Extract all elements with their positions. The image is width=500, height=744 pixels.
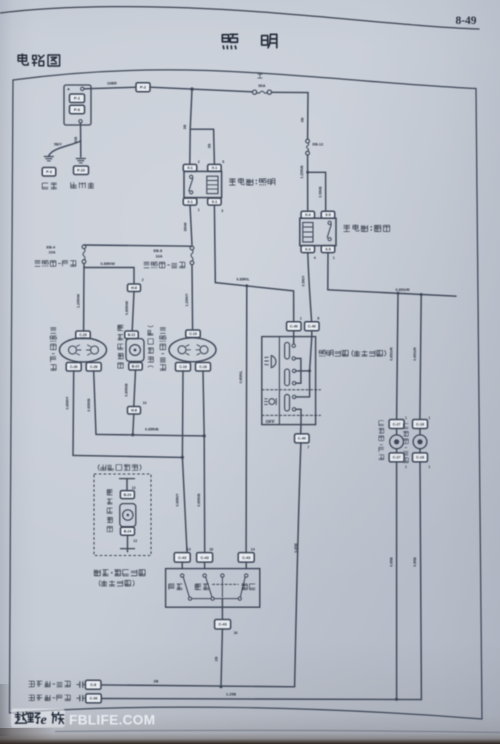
label 车宽灯-右侧 vertical: [403, 424, 408, 463]
wire dimmer ground: [221, 629, 222, 687]
connector P-2: [136, 83, 150, 92]
wire right low beam: [182, 371, 187, 552]
svg-text:8: 8: [317, 317, 319, 321]
label OFF: [266, 419, 275, 424]
width lamp right 车宽灯-右侧: [413, 416, 431, 469]
wire chassis branch: [49, 141, 81, 156]
contact mid: [221, 574, 224, 597]
svg-text:C-18: C-18: [199, 365, 207, 369]
ground chassis: [44, 157, 53, 161]
svg-text:0.85G/R: 0.85G/R: [396, 288, 410, 292]
connector P-1: [70, 94, 85, 103]
wire width-right column: [420, 295, 421, 420]
svg-text:0.85R/B: 0.85R/B: [197, 493, 201, 507]
label 0.85R/L passing: [239, 370, 243, 384]
label 30B: [74, 136, 78, 143]
svg-text:0.85R/L: 0.85R/L: [239, 370, 243, 384]
switch contacts: [292, 344, 296, 411]
svg-text:13: 13: [132, 486, 136, 490]
svg-text:C-18: C-18: [416, 456, 424, 460]
svg-text:C-43: C-43: [242, 556, 250, 560]
svg-text:14: 14: [251, 547, 255, 551]
label 0.85B wleft: [389, 557, 393, 567]
svg-text:C-16: C-16: [179, 365, 187, 369]
mechanical link dashed: [213, 583, 239, 585]
svg-text:C-40: C-40: [298, 437, 306, 441]
contact high 远光: [203, 574, 212, 597]
wire left high beam: [94, 371, 96, 434]
page number 8-49: [455, 15, 476, 27]
wire branch to indicator: [84, 268, 134, 285]
label 组合开关: [99, 580, 134, 586]
label 3B left: [183, 124, 187, 129]
svg-text:P-10: P-10: [77, 169, 85, 173]
relay U2 tail-lamp 继电器：尾灯: [300, 211, 336, 259]
switch S2 dimmer-passing box: [166, 569, 260, 608]
watermark FBLIFE.COM: [69, 712, 155, 727]
svg-text:13: 13: [143, 401, 147, 405]
svg-text:X-5: X-5: [325, 213, 331, 217]
wire relay1 coil to switch: [214, 205, 293, 321]
head lamp left 前照灯-左侧: [60, 331, 107, 371]
svg-text:0.85R/Y: 0.85R/Y: [176, 493, 180, 507]
wire c6 to ground pin: [296, 409, 301, 433]
svg-text:13: 13: [187, 547, 191, 551]
svg-text:0.85R/B: 0.85R/B: [87, 398, 91, 412]
svg-text:1.25R/B: 1.25R/B: [300, 165, 304, 179]
svg-text:P-3: P-3: [46, 170, 52, 174]
wire tail feed down: [307, 93, 309, 140]
page title 照明: [222, 34, 276, 48]
svg-text:0.85R/W: 0.85R/W: [125, 300, 129, 315]
label 超车: [242, 584, 256, 590]
label 2B dimmer: [215, 656, 219, 661]
label 远光: [195, 584, 209, 590]
svg-text:3R/W: 3R/W: [183, 222, 187, 232]
svg-text:1: 1: [428, 465, 430, 469]
svg-text:B-24: B-24: [124, 493, 132, 497]
svg-text:EB-4: EB-4: [47, 245, 57, 249]
svg-text:P-2: P-2: [140, 85, 147, 90]
svg-text:C-18: C-18: [416, 422, 424, 426]
switch S1 lighting box: [262, 337, 316, 425]
bus high beam: [96, 434, 204, 436]
connector C-36: [86, 694, 102, 703]
label EB-8 16A: [154, 249, 163, 258]
watermark 越野e族: [11, 709, 65, 728]
svg-text:C-40: C-40: [308, 325, 316, 329]
svg-text:B-22: B-22: [132, 365, 140, 369]
label 0.85G/R right: [413, 347, 417, 361]
svg-text:C-28: C-28: [90, 365, 98, 369]
label 1.25B bus: [226, 692, 236, 696]
svg-text:0.85G/R: 0.85G/R: [390, 347, 394, 361]
label 0.5R/B: [319, 186, 323, 198]
svg-text:90A: 90A: [258, 83, 265, 88]
label 0.85R/B bus: [145, 428, 159, 432]
svg-text:0.85R/Y: 0.85R/Y: [66, 396, 70, 410]
label 0.85R/Y right: [176, 493, 180, 507]
label 0.85R/Y left: [66, 396, 70, 410]
svg-text:B-22: B-22: [128, 333, 136, 337]
label 叶子板-右侧: [29, 681, 71, 687]
svg-text:H-8: H-8: [131, 286, 137, 290]
svg-text:3: 3: [221, 209, 223, 213]
page edge shadow line: [55, 730, 500, 732]
svg-text:C-43: C-43: [218, 623, 226, 627]
wire width-right ground: [420, 462, 421, 700]
label 不带转速表: [98, 464, 141, 470]
connector C-43 pin14: [238, 547, 255, 562]
wire stubs C-43: [182, 562, 246, 568]
wire right high beam: [203, 371, 205, 552]
label 2B bus: [154, 679, 159, 683]
label 近光: [169, 584, 183, 590]
lamp H1 high-beam indicator: [126, 339, 144, 362]
svg-text:1: 1: [333, 256, 335, 260]
svg-text:0.85R/B: 0.85R/B: [125, 383, 129, 397]
svg-text:2: 2: [198, 160, 200, 164]
svg-text:C-19: C-19: [189, 332, 197, 336]
dashed option box: [94, 474, 151, 556]
label 0.85B wright: [413, 557, 417, 567]
svg-text:X-1: X-1: [187, 200, 193, 204]
svg-text:5B/Y: 5B/Y: [54, 143, 62, 147]
connector H-8 lower: [128, 401, 147, 414]
svg-text:X-5: X-5: [325, 247, 331, 251]
junction tail coil/switch: [306, 171, 309, 174]
junction indicator high bus: [131, 433, 134, 436]
wire B-22 down: [134, 370, 136, 406]
junction high bus right: [203, 434, 206, 437]
indicator B-24 no-tach: [120, 479, 138, 552]
connector symbol left fender: [77, 695, 86, 701]
connector P-6: [70, 105, 85, 114]
svg-text:3B: 3B: [301, 117, 305, 122]
svg-text:16A: 16A: [156, 254, 163, 258]
icon headlamp: [265, 356, 276, 368]
svg-text:FBLIFE.COM: FBLIFE.COM: [69, 712, 155, 727]
svg-text:C-27: C-27: [393, 422, 401, 426]
label relay tail 继电器：尾灯: [344, 225, 390, 232]
wire pin8 into switch: [296, 331, 312, 397]
label 1.25R/Y: [185, 293, 189, 307]
svg-text:1.25R/W: 1.25R/W: [77, 293, 81, 308]
label 前照灯-右侧 vertical: [160, 328, 166, 371]
svg-text:H-8: H-8: [131, 409, 137, 413]
wire H-8 to B-22: [132, 292, 134, 331]
link c2-c4: [295, 358, 301, 383]
label 0.85G/R left: [390, 347, 394, 361]
svg-text:0.85B: 0.85B: [413, 557, 417, 567]
svg-text:X-1: X-1: [187, 166, 193, 170]
fuse EB-12: [306, 139, 310, 155]
relay U1 head-lamp 继电器：照明: [183, 160, 224, 213]
svg-text:18: 18: [209, 547, 213, 551]
label 0.85R/B left: [87, 398, 91, 412]
label 16BR: [107, 81, 117, 85]
connector C-43 output: [215, 620, 238, 635]
junction passing branch: [245, 284, 248, 287]
svg-text:5: 5: [222, 160, 224, 164]
svg-text:X-4: X-4: [305, 213, 311, 217]
label 0.85R/B ind: [125, 383, 129, 397]
contact low 近光: [181, 574, 190, 597]
svg-text:C-40: C-40: [290, 325, 298, 329]
svg-text:EB-12: EB-12: [313, 142, 324, 146]
wire width-left column: [397, 293, 398, 419]
svg-text:0.85B: 0.85B: [294, 543, 298, 553]
width lamp left 车宽灯-左侧: [389, 416, 407, 469]
connector C-40 pin8: [305, 317, 320, 331]
svg-text:X-1: X-1: [212, 166, 218, 170]
connector P-3: [42, 168, 56, 177]
label EB-12: [313, 142, 324, 146]
connector B-22 upper: [125, 331, 139, 339]
svg-text:1: 1: [405, 416, 407, 420]
svg-text:C-43: C-43: [178, 556, 186, 560]
wire left low beam: [72, 371, 75, 455]
switch common rail: [188, 597, 241, 619]
wire EB-8 to right headlamp: [191, 265, 194, 330]
label 1.25R/W: [77, 293, 81, 308]
svg-text:2: 2: [142, 278, 144, 282]
junction lighting feed: [190, 87, 193, 90]
label 车架: [42, 183, 57, 189]
connector C-40 ground: [295, 434, 310, 450]
label 3R/W: [183, 222, 187, 232]
label 5B/Y: [54, 143, 62, 147]
fuse EB-4: [82, 245, 86, 264]
label main fuse: [257, 73, 265, 88]
label 3B right: [207, 143, 211, 148]
wire passing to C-43 pin14: [245, 286, 248, 552]
svg-text:0.85R/B: 0.85R/B: [145, 428, 159, 432]
svg-text:P-1: P-1: [74, 96, 81, 101]
junction pin8 link: [308, 369, 311, 372]
page header rule: [0, 7, 479, 29]
svg-text:0.85R/W: 0.85R/W: [101, 262, 116, 266]
wire tail coil to C-40 pin8: [308, 253, 312, 322]
head lamp right 前照灯-右侧: [169, 330, 216, 371]
connector C-8: [85, 680, 101, 689]
label 前照灯-左侧 fuse: [35, 261, 76, 267]
label 叶子板-左侧: [29, 695, 71, 701]
wire main fuse to tail branch: [272, 91, 309, 93]
connector B-22 lower: [129, 363, 143, 371]
svg-text:P-6: P-6: [74, 107, 81, 112]
connector P-10: [74, 166, 89, 175]
svg-text:X-1: X-1: [212, 200, 218, 204]
label 前照灯-右侧 fuse: [144, 262, 185, 268]
label 带转速表 vertical: [148, 326, 154, 367]
svg-text:C-43: C-43: [200, 556, 208, 560]
junction low bus: [181, 456, 184, 459]
svg-text:2B: 2B: [215, 656, 219, 661]
label EB-4 10A: [47, 245, 57, 254]
label 0.5R/Y: [301, 275, 305, 287]
connector symbol right fender: [77, 682, 86, 688]
svg-text:X-4: X-4: [305, 247, 311, 251]
wire branch 0.5R/B: [308, 172, 326, 211]
svg-text:16BR: 16BR: [107, 81, 117, 85]
contact slots: [285, 342, 290, 411]
junction width-left on bus B: [395, 698, 398, 701]
svg-text:1.25R/Y: 1.25R/Y: [185, 293, 189, 307]
svg-text:0.85B: 0.85B: [389, 557, 393, 567]
svg-text:3B: 3B: [207, 143, 211, 148]
svg-text:0.5R/Y: 0.5R/Y: [301, 275, 305, 287]
junction width-right: [420, 293, 423, 296]
connector C-43 pin18: [197, 547, 214, 562]
svg-text:0.5R/B: 0.5R/B: [319, 186, 323, 198]
svg-text:OFF: OFF: [266, 419, 275, 424]
fuse main 90A: [253, 90, 272, 94]
wire width-left ground: [396, 462, 398, 699]
label 车宽灯-左侧 vertical: [379, 421, 384, 460]
svg-text:1: 1: [198, 208, 200, 212]
connector C-43 pin13: [174, 547, 191, 562]
label 0.85R/W branch: [101, 262, 116, 266]
svg-text:3B: 3B: [183, 124, 187, 129]
label 照明开关组合开关: [319, 350, 386, 356]
label 变光超车开关: [94, 570, 145, 576]
junction dimmer on bus A: [219, 685, 222, 688]
fuse EB-8: [190, 246, 194, 265]
svg-text:C-8: C-8: [90, 683, 96, 687]
wire P-2 to main fuse: [150, 87, 252, 92]
svg-text:10A: 10A: [49, 251, 56, 255]
wire battery to P-2: [84, 87, 136, 89]
wire lighting feed down: [190, 89, 215, 165]
svg-text:C-36: C-36: [90, 697, 98, 701]
wire lighting switch ground: [295, 443, 301, 687]
label 前照灯-左侧 vertical: [50, 328, 56, 371]
junction width-left: [397, 292, 400, 295]
svg-text:B-24: B-24: [124, 529, 132, 533]
icon position lamp: [265, 399, 277, 405]
svg-text:7: 7: [307, 446, 309, 450]
bus low beam: [73, 455, 182, 457]
connector H-8 upper: [128, 278, 144, 292]
label 1.25R/B: [300, 165, 304, 179]
label 0.85R/B right: [197, 493, 201, 507]
svg-text:13: 13: [133, 539, 137, 543]
contact passing 超车: [240, 574, 248, 597]
svg-text:C-27: C-27: [393, 456, 401, 460]
svg-text:1: 1: [300, 317, 302, 321]
svg-text:2B: 2B: [154, 679, 159, 683]
section label 电路图: [18, 54, 60, 66]
wire H-8 to high bus: [133, 414, 134, 435]
svg-text:e: e: [41, 713, 47, 728]
battery box: [64, 85, 91, 125]
wire EB-4 to left headlamp: [83, 264, 85, 332]
svg-text:16: 16: [234, 631, 238, 635]
label 0.85R/W ind: [125, 300, 129, 315]
svg-text:1: 1: [405, 465, 407, 469]
wire battery ground: [80, 123, 82, 157]
label 0.85R/L: [237, 277, 251, 281]
connector C-40 pin1: [287, 317, 302, 331]
svg-text:1: 1: [428, 416, 430, 420]
ground bus B 1.25B: [101, 699, 421, 700]
bus 0.85G/R: [328, 290, 456, 296]
wire tail switch out: [327, 253, 329, 290]
ground engine: [76, 159, 85, 163]
label 远光指示灯 dashed: [107, 490, 112, 532]
label 3B tail: [301, 117, 305, 122]
wire EB-12 to relay: [307, 155, 309, 211]
wire pin1 into switch: [293, 331, 295, 344]
ground bus A 2B: [101, 685, 295, 687]
svg-text:0.85G/R: 0.85G/R: [413, 347, 417, 361]
svg-text:4: 4: [314, 256, 316, 260]
svg-text:0.85R/L: 0.85R/L: [237, 277, 251, 281]
svg-text:C-26: C-26: [70, 365, 78, 369]
label 0.85B switch: [294, 543, 298, 553]
label relay head 继电器：照明: [229, 178, 275, 185]
svg-text:C-26: C-26: [79, 333, 87, 337]
fuse bus headlamps: [84, 245, 192, 246]
svg-text:EB-8: EB-8: [154, 249, 163, 253]
label 发动机: [71, 182, 94, 188]
wire relay1 to fuse bus: [190, 205, 192, 245]
label 0.85G/R bus: [396, 288, 410, 292]
svg-text:8-49: 8-49: [455, 15, 476, 27]
dashed separators: [262, 390, 321, 416]
label 远光指示灯 vertical: [118, 325, 123, 368]
svg-text:1.25B: 1.25B: [226, 692, 236, 696]
